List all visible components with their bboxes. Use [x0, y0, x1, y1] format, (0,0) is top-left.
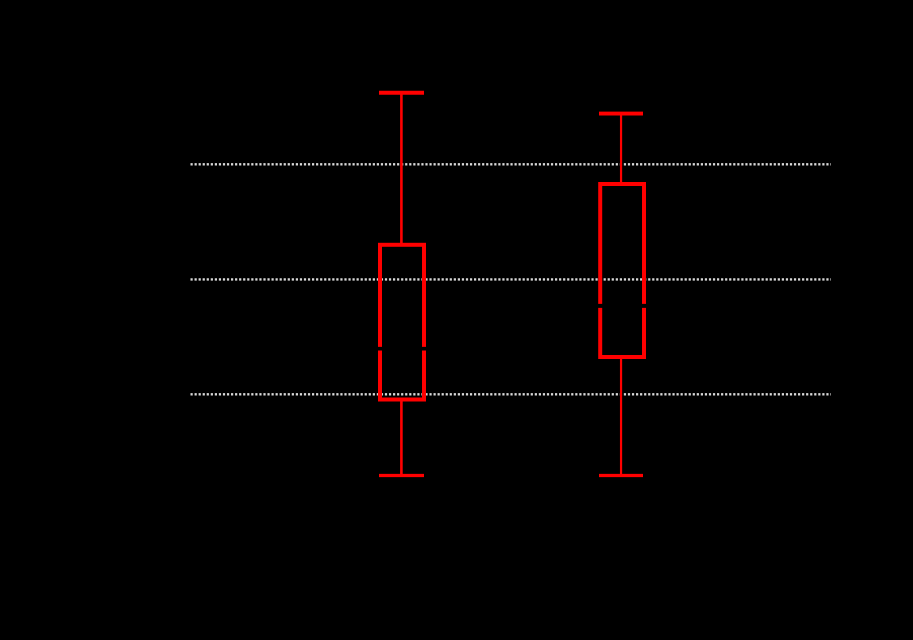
boxplot 2 lower whisker stem [620, 357, 622, 476]
boxplot 1 median (black) [378, 347, 427, 351]
boxplot 2 upper whisker cap [599, 112, 643, 116]
boxplot 1 lower whisker cap [379, 474, 424, 477]
gridline 2 (dotted) [191, 278, 832, 280]
boxplot 1 upper whisker stem [400, 93, 403, 244]
gridline 1 (dotted) [191, 163, 832, 165]
gridline 3 (dotted) [191, 393, 832, 395]
boxplot 2 box (IQR) [600, 184, 644, 357]
boxplot 1 lower whisker stem [400, 400, 403, 476]
boxplot 1 upper whisker cap [379, 91, 424, 95]
boxplot 2 lower whisker cap [599, 474, 643, 477]
boxplot 1 box (IQR) [380, 245, 424, 400]
boxplot 2 upper whisker stem [620, 114, 622, 184]
boxplot 2 median (black) [598, 304, 647, 308]
